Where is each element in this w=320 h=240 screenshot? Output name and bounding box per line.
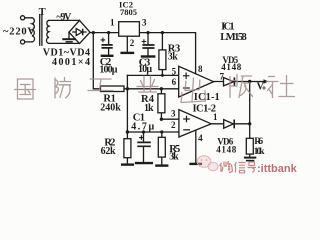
svg-text:8: 8 bbox=[198, 64, 203, 74]
svg-text:o: o bbox=[262, 84, 265, 91]
svg-text:6: 6 bbox=[172, 77, 177, 87]
svg-text:4001×4: 4001×4 bbox=[52, 57, 90, 68]
svg-text:240k: 240k bbox=[100, 103, 121, 114]
svg-text:62k: 62k bbox=[101, 146, 116, 157]
svg-text:4148: 4148 bbox=[221, 62, 241, 72]
svg-text:IC1: IC1 bbox=[221, 21, 235, 32]
svg-text:T: T bbox=[39, 7, 46, 18]
svg-text:7: 7 bbox=[220, 71, 225, 81]
svg-text:4: 4 bbox=[198, 133, 203, 143]
svg-text:~9V: ~9V bbox=[56, 12, 72, 23]
svg-text:5: 5 bbox=[172, 66, 177, 76]
svg-text:3k: 3k bbox=[168, 51, 178, 62]
svg-text:100μ: 100μ bbox=[99, 64, 117, 75]
svg-text:1: 1 bbox=[110, 18, 115, 28]
svg-text:4.7μ: 4.7μ bbox=[131, 121, 154, 132]
svg-text:2: 2 bbox=[171, 120, 176, 130]
svg-text:3k: 3k bbox=[169, 152, 179, 163]
svg-text:R6: R6 bbox=[254, 137, 263, 147]
svg-text:10μ: 10μ bbox=[138, 64, 152, 75]
svg-text:4148: 4148 bbox=[216, 144, 236, 154]
svg-text:10k: 10k bbox=[254, 147, 266, 157]
svg-text:7805: 7805 bbox=[120, 7, 137, 17]
svg-text::ittbank: :ittbank bbox=[257, 163, 298, 175]
svg-text:1k: 1k bbox=[144, 103, 154, 114]
svg-text:1: 1 bbox=[213, 112, 218, 122]
svg-text:LM158: LM158 bbox=[220, 32, 247, 43]
svg-text:3: 3 bbox=[171, 108, 176, 118]
svg-text:2: 2 bbox=[130, 38, 135, 48]
svg-text:~220V: ~220V bbox=[3, 27, 35, 38]
svg-text:3: 3 bbox=[142, 18, 147, 28]
